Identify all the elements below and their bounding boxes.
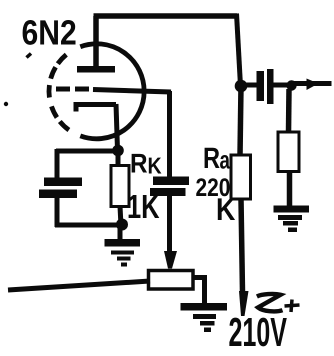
resistor Rg body [278, 132, 299, 172]
anode plate bar [77, 66, 115, 73]
ground stub cathode [118, 228, 123, 240]
wire Cg to potentiometer [167, 195, 172, 252]
wire bypass cap top lead [55, 149, 60, 179]
label Ra - R [205, 148, 220, 168]
wire top horizontal [94, 13, 238, 19]
tube U1 envelope solid right arc [80, 44, 144, 139]
grid lead vertical [167, 91, 172, 178]
wire cathode top to bypass cap [56, 149, 118, 154]
cathode electrode with hook [76, 105, 116, 112]
wire bypass cap bottom lead [55, 197, 60, 227]
ground cathode dash 2 [111, 251, 134, 255]
ground cathode dash 4 [121, 263, 127, 267]
supply arrow down [239, 291, 249, 316]
ground right dash 4 [288, 228, 297, 233]
ground pot dash 2 [193, 314, 216, 319]
anode lead [93, 16, 99, 68]
capacitor CK top plate [44, 178, 82, 187]
potentiometer R body [149, 271, 194, 290]
node cathode bottom junction [116, 219, 128, 231]
label 210V [229, 318, 241, 346]
ground right dash 2 [278, 215, 302, 220]
label 1K [129, 195, 141, 218]
capacitor C2 right plate [267, 69, 274, 104]
label 220 [196, 178, 206, 196]
resistor RK body [111, 166, 129, 207]
stray ink speck left edge [4, 102, 8, 106]
label RK - K [149, 158, 162, 174]
resistor Ra body [231, 155, 251, 199]
capacitor Cg top plate [153, 177, 189, 186]
wire coupling cap to output node [274, 83, 292, 88]
ground pot dash 4 [204, 328, 211, 333]
output arrow head right [307, 79, 319, 91]
wiper arrow head [164, 251, 177, 269]
resistor Ra top lead [240, 86, 241, 156]
grid dashed electrode [56, 87, 70, 92]
node anode junction [235, 80, 248, 93]
label 220K - K [218, 198, 235, 220]
resistor RK bottom lead [120, 206, 121, 226]
ground pot dash 3 [200, 321, 215, 326]
grid lead horizontal [93, 90, 171, 93]
wire output right [292, 81, 332, 86]
ground cathode dash 3 [117, 257, 131, 261]
wire anode feed vertical [237, 14, 241, 87]
capacitor Cg bottom plate [150, 188, 186, 196]
resistor Rg top lead [286, 89, 292, 133]
resistor RK top lead [116, 150, 121, 167]
ground cathode bar [105, 239, 141, 247]
capacitor C2 left plate [257, 71, 265, 101]
wire potentiometer right to ground [193, 278, 205, 304]
node cathode top junction [112, 145, 124, 157]
label RK - R [132, 154, 147, 173]
wire junction to coupling cap [246, 83, 257, 88]
capacitor CK bottom plate [39, 190, 77, 199]
cathode lead down [116, 104, 118, 150]
node output junction [286, 80, 296, 90]
ground pot bar [181, 303, 228, 311]
label 6N2 [23, 20, 38, 45]
label Ra - a [220, 155, 230, 169]
resistor Ra bottom lead [241, 199, 243, 292]
wire bottom of RC network [55, 223, 121, 228]
stray ink speck below 6N2 [27, 54, 32, 58]
tube U1 envelope dashed left arc [60, 122, 69, 131]
ground right bar [274, 206, 310, 213]
ground right dash 3 [283, 221, 298, 226]
resistor Rg bottom lead [287, 171, 293, 206]
wire input left [8, 281, 150, 290]
label Z+ handwritten [257, 294, 283, 311]
